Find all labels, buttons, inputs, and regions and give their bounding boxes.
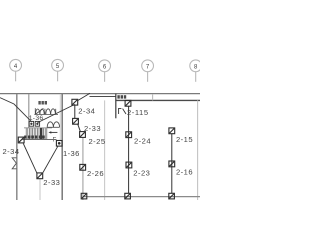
bracket symbol before 2-115 — [119, 108, 122, 114]
grid bubble 5 — [52, 59, 64, 81]
svg-text:2-34: 2-34 — [3, 147, 20, 156]
wire box 2-33 to 2-25 — [78, 124, 81, 132]
closet wall vertical x115.8 — [115, 94, 117, 119]
svg-text:2-25: 2-25 — [89, 137, 106, 146]
grid bubble 7 — [142, 60, 154, 82]
junction box 2-25 — [80, 132, 86, 138]
svg-text:2-33: 2-33 — [84, 124, 101, 133]
junction box bottom mid — [125, 193, 131, 199]
junction box 2-115 — [125, 100, 131, 106]
junction box 2-34 left — [18, 137, 24, 143]
svg-text:2-26: 2-26 — [87, 169, 104, 178]
wire column 1 vertical — [128, 106, 130, 193]
wire below 2-33B light — [39, 179, 41, 200]
junction box 1-36 — [56, 141, 62, 147]
wire from door to switch (left) — [0, 98, 32, 122]
svg-text:2-16: 2-16 — [176, 168, 193, 177]
lamp arcs row2 — [47, 122, 60, 128]
junction box bottom left — [81, 193, 87, 199]
stair bottom line — [22, 139, 56, 141]
wall second horizontal right — [115, 99, 200, 101]
svg-text:4: 4 — [14, 64, 18, 70]
junction box 2-34 top — [72, 99, 78, 105]
staircase center rail dark bar — [40, 128, 42, 139]
wall vertical light x104.6 — [104, 100, 106, 200]
staircase niche door arcs row1 — [34, 108, 58, 114]
closet wall vertical light x152.6 — [152, 94, 154, 100]
closet label (qiangdian tiny text) — [117, 95, 126, 98]
wire box 2-34L to 2-33B — [23, 144, 37, 174]
stair bottom tiny text row — [24, 136, 45, 139]
switch tiny square b — [35, 121, 39, 126]
wall top horizontal — [0, 93, 200, 95]
svg-text:8: 8 — [194, 64, 198, 70]
wire box 1-36 to 2-33B — [43, 146, 58, 172]
grid bubble 8 — [190, 60, 202, 82]
svg-text:6: 6 — [103, 64, 107, 70]
bottom horizontal line — [84, 196, 200, 198]
wire box 2-34 to 2-33 — [74, 105, 76, 118]
wall vertical x16.5 — [16, 94, 18, 200]
junction box 2-23 — [126, 162, 132, 168]
wall vertical x28.8 — [28, 94, 30, 128]
wall zigzag symbol — [12, 158, 16, 169]
junction box 2-33 bottom — [37, 173, 43, 179]
junction box 2-15 — [169, 128, 175, 134]
svg-text:2-34: 2-34 — [78, 107, 95, 116]
junction box 2-33 top — [73, 118, 79, 124]
svg-text:2-33: 2-33 — [43, 178, 60, 187]
wire switch to box 2-34 — [38, 104, 75, 122]
stair room tiny text — [38, 101, 47, 105]
wall vertical x62 — [61, 94, 63, 200]
svg-text:2-115: 2-115 — [127, 108, 149, 117]
svg-text:1-36: 1-36 — [29, 115, 44, 122]
junction box 2-16 — [169, 161, 175, 167]
wire/wall vertical light through 2-25 2-26 — [82, 138, 84, 201]
svg-text:2-23: 2-23 — [133, 168, 150, 177]
grid bubble 6 — [99, 60, 111, 82]
wall vertical light x197.6 — [197, 100, 199, 200]
svg-text:1-36: 1-36 — [63, 149, 80, 158]
svg-text:7: 7 — [146, 64, 150, 70]
svg-text:2-24: 2-24 — [134, 137, 151, 146]
svg-text:2-15: 2-15 — [176, 135, 193, 144]
svg-text:5: 5 — [56, 64, 60, 70]
switch tiny square a — [29, 121, 33, 126]
junction box 2-26 — [80, 164, 86, 170]
wire column 2 vertical — [171, 134, 173, 194]
stair direction arrow — [50, 131, 57, 133]
grid bubble 4 — [10, 59, 22, 81]
wire box 2-34 up to wall — [77, 93, 90, 101]
junction box bottom right — [169, 193, 175, 199]
junction box 2-24 — [126, 132, 132, 138]
wall vertical light x60 — [59, 94, 61, 140]
staircase hatch — [24, 128, 52, 139]
